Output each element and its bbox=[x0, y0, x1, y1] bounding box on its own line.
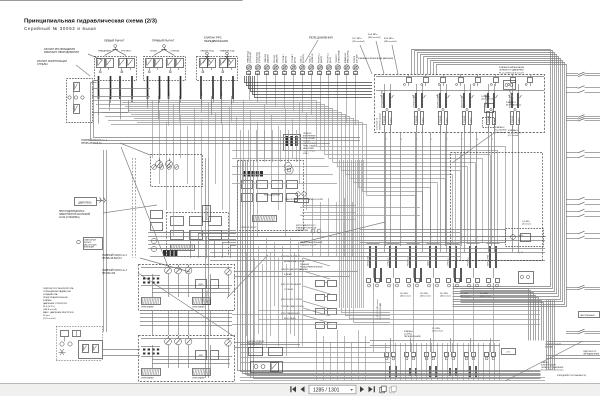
svg-text:ОПУСКАНИЕ: ОПУСКАНИЕ bbox=[212, 87, 215, 98]
svg-text:ВКЛ: ВКЛ bbox=[248, 73, 251, 75]
svg-text:(0,5 кгс/см²): (0,5 кгс/см²) bbox=[495, 131, 506, 134]
svg-text:ДАВЛЕНИЕ ОТКРЫТИЯ:: ДАВЛЕНИЕ ОТКРЫТИЯ: bbox=[43, 302, 67, 305]
svg-text:(580 кгс/см²): (580 кгс/см²) bbox=[384, 40, 397, 43]
svg-text:ПРИ ПОДКЛЮЧЕНИИ К: ПРИ ПОДКЛЮЧЕНИИ К bbox=[59, 211, 85, 213]
svg-text:(400 кгс/см²): (400 кгс/см²) bbox=[420, 295, 431, 298]
svg-text:ПРЕДОХРАНИТЕЛЬНЫЙ: ПРЕДОХРАНИТЕЛЬНЫЙ bbox=[43, 296, 68, 299]
svg-text:(2,01 кгс/см²): (2,01 кгс/см²) bbox=[43, 317, 56, 320]
svg-text:1285 / 1301: 1285 / 1301 bbox=[313, 388, 340, 394]
svg-text:ПЕРЕДНИЙ НАСОС: ПЕРЕДНИЙ НАСОС bbox=[206, 204, 209, 220]
svg-text:PL+0,47 МПа (4,8 кгс/см²): PL+0,47 МПа (4,8 кгс/см²) bbox=[499, 71, 524, 74]
svg-text:P: P bbox=[386, 237, 387, 239]
svg-text:P: P bbox=[401, 139, 402, 141]
svg-text:ЛЕВЫЙ ХОД: ЛЕВЫЙ ХОД bbox=[201, 50, 215, 53]
svg-text:(РАБ.ОБОРУД): (РАБ.ОБОРУД) bbox=[347, 50, 350, 63]
svg-text:(ВВЕРХ): (ВВЕРХ) bbox=[321, 55, 323, 63]
svg-text:ОХЛАЖДЕНИЯ РАДИАТОРА: ОХЛАЖДЕНИЯ РАДИАТОРА bbox=[43, 290, 71, 293]
svg-text:ПРАВЫЙ ХОД: ПРАВЫЙ ХОД bbox=[220, 50, 235, 53]
svg-text:HPV95+95-БАЛ.14: HPV95+95-БАЛ.14 bbox=[102, 257, 122, 260]
svg-text:СЕРВОКЛАПАН: СЕРВОКЛАПАН bbox=[192, 306, 205, 309]
svg-text:КЛАПАН КОМПЕНСАЦИИ: КЛАПАН КОМПЕНСАЦИИ bbox=[499, 66, 525, 69]
svg-text:P: P bbox=[431, 237, 432, 239]
svg-text:ПЕРЕДВ ЛЕВ: ПЕРЕДВ ЛЕВ bbox=[367, 256, 369, 266]
svg-text:ЛЕВЫЙ РЫЧАГ: ЛЕВЫЙ РЫЧАГ bbox=[104, 39, 125, 43]
svg-text:P: P bbox=[462, 237, 463, 239]
svg-text:ПЛАТФОРМЫ: ПЛАТФОРМЫ bbox=[296, 229, 309, 232]
svg-text:ОПУСКАНИЕ: ОПУСКАНИЕ bbox=[159, 87, 162, 98]
svg-text:(150 кгс/см²): (150 кгс/см²) bbox=[352, 40, 365, 43]
svg-text:(ПЕРЕДНЯЯ/СТОРОНА ШАССИ): (ПЕРЕДНЯЯ/СТОРОНА ШАССИ) bbox=[557, 374, 586, 377]
svg-text:GLSS (2 РЕЖИМА): GLSS (2 РЕЖИМА) bbox=[59, 216, 80, 219]
svg-text:СТРЕЛЫ: СТРЕЛЫ bbox=[37, 63, 48, 66]
svg-text:(ВНИЗ): (ВНИЗ) bbox=[330, 57, 332, 63]
svg-text:ГЛАВНЫЙ НАСОС № 3: ГЛАВНЫЙ НАСОС № 3 bbox=[102, 269, 128, 272]
svg-text:РУКОЯТЬ-1: РУКОЯТЬ-1 bbox=[467, 257, 469, 266]
svg-text:Принципиальная гидравлическая: Принципиальная гидравлическая схема (2/3… bbox=[24, 19, 157, 25]
svg-text:КОВШ: КОВШ bbox=[150, 51, 156, 53]
svg-text:ЭЛЕКТРОМАГНИТНЫЙ КЛАПАН В СБОР: ЭЛЕКТРОМАГНИТНЫЙ КЛАПАН В СБОРЕ bbox=[285, 198, 324, 201]
svg-text:(ОБХ.): (ОБХ.) bbox=[303, 153, 309, 155]
svg-text:РАБОЧЕГО ОБОРУДОВАНИЯ: РАБОЧЕГО ОБОРУДОВАНИЯ bbox=[44, 51, 79, 54]
svg-text:ПЕРЕДНЯЯ СЕКЦИЯ: ПЕРЕДНЯЯ СЕКЦИЯ bbox=[380, 302, 382, 320]
svg-text:P: P bbox=[401, 237, 402, 239]
svg-text:Po: 20,5 МПа (205 кгс/см²): Po: 20,5 МПа (205 кгс/см²) bbox=[376, 299, 379, 320]
svg-text:(ПЕРЕДНИЙ): (ПЕРЕДНИЙ) bbox=[249, 51, 252, 63]
svg-text:СПУСК: СПУСК bbox=[446, 118, 448, 123]
svg-text:P: P bbox=[477, 139, 478, 141]
svg-text:ПОДЪЕМ: ПОДЪЕМ bbox=[464, 115, 466, 123]
svg-text:Серийный № 30052 и выше: Серийный № 30052 и выше bbox=[24, 26, 97, 31]
svg-text:P: P bbox=[431, 139, 432, 141]
svg-text:СПУСК: СПУСК bbox=[470, 118, 472, 123]
svg-text:ВКЛ: ВКЛ bbox=[327, 73, 330, 75]
svg-text:ПРИ 30 МПа (днище): ПРИ 30 МПа (днище) bbox=[380, 113, 382, 130]
svg-text:КЛАПАН: КЛАПАН bbox=[284, 273, 292, 276]
svg-text:98 (кгс): 98 (кгс) bbox=[43, 315, 50, 317]
svg-text:ПЕРЕДВИЖЕНИЕ ЛЕВ: ПЕРЕДВИЖЕНИЕ ЛЕВ bbox=[381, 91, 383, 108]
svg-text:(0,2 кгс/см²): (0,2 кгс/см²) bbox=[508, 134, 519, 137]
svg-text:(400 кгс/см²): (400 кгс/см²) bbox=[440, 295, 451, 298]
svg-text:ВИБРАЦИЙ: ВИБРАЦИЙ bbox=[84, 246, 95, 249]
svg-text:+ТТ.2: +ТТ.2 bbox=[506, 352, 511, 354]
svg-text:ОБРАТНОГО ДАВЛЕНИЯ: ОБРАТНОГО ДАВЛЕНИЯ bbox=[499, 69, 524, 72]
svg-text:(248 В кгс/см²): (248 В кгс/см²) bbox=[43, 308, 57, 311]
svg-text:(400 кгс/см²): (400 кгс/см²) bbox=[400, 295, 411, 298]
svg-text:ОПУСКАНИЕ: ОПУСКАНИЕ bbox=[180, 87, 183, 98]
svg-text:ВКЛ: ВКЛ bbox=[256, 73, 259, 75]
svg-text:ЦЕНТРАЛЬНЫЙ: ЦЕНТРАЛЬНЫЙ bbox=[580, 314, 595, 317]
svg-text:КЛАПАН S: КЛАПАН S bbox=[506, 101, 517, 104]
svg-text:(ПЛАТФОРМА): (ПЛАТФОРМА) bbox=[338, 50, 341, 63]
svg-text:СЕРВ: СЕРВ bbox=[198, 355, 202, 357]
svg-text:55,8 МПа: 55,8 МПа bbox=[368, 34, 378, 36]
svg-text:ГОЛОВА СЗАДИ СТРЕЛА: ГОЛОВА СЗАДИ СТРЕЛА bbox=[281, 305, 304, 308]
svg-text:ПОДЪЕМ: ПОДЪЕМ bbox=[512, 115, 514, 123]
svg-text:МАКС. ДАВЛЕНИЕ РАЗГРУЗКИ: МАКС. ДАВЛЕНИЕ РАЗГРУЗКИ bbox=[43, 311, 74, 314]
svg-text:КЛАПАН: КЛАПАН bbox=[43, 299, 52, 302]
svg-text:СПУСК: СПУСК bbox=[422, 118, 424, 123]
svg-text:P: P bbox=[492, 237, 493, 239]
svg-text:СЕРВОКЛАПАН: СЕРВОКЛАПАН bbox=[141, 306, 154, 309]
svg-text:ДВИГАТЕЛЬ: ДВИГАТЕЛЬ bbox=[78, 201, 92, 204]
svg-text:14,7 МПа: 14,7 МПа bbox=[352, 38, 362, 40]
svg-text:КОВШ: КОВШ bbox=[427, 261, 429, 266]
svg-text:ПОДЪЕМ: ПОДЪЕМ bbox=[384, 115, 386, 123]
svg-text:(565 кгс/см²): (565 кгс/см²) bbox=[368, 36, 381, 39]
svg-text:(10,8 кгс/см²): (10,8 кгс/см²) bbox=[481, 98, 493, 101]
svg-text:ВКЛ: ВКЛ bbox=[319, 73, 322, 75]
svg-text:ПЕРЕДВИЖЕНИЯ: ПЕРЕДВИЖЕНИЯ bbox=[204, 39, 228, 43]
svg-text:HPV160-160: HPV160-160 bbox=[102, 273, 116, 275]
svg-text:№ 3,5% (25 кгс): № 3,5% (25 кгс) bbox=[376, 117, 379, 130]
svg-text:СЕРВОКЛАПАН: СЕРВОКЛАПАН bbox=[192, 377, 205, 380]
svg-text:КЛАПАН S: КЛАПАН S bbox=[508, 129, 519, 132]
svg-text:ГЛАВНЫЙ НАСОС № 2: ГЛАВНЫЙ НАСОС № 2 bbox=[102, 254, 128, 257]
svg-text:P: P bbox=[477, 237, 478, 239]
svg-text:ГИДРОМОТОР ВЕНТИЛЯТОРА: ГИДРОМОТОР ВЕНТИЛЯТОРА bbox=[43, 287, 74, 290]
svg-text:РУКОЯТЬ ВСПОМ: РУКОЯТЬ ВСПОМ bbox=[437, 94, 439, 108]
svg-text:ЭЛЕКТРОННОЙ СИСТЕМОЙ: ЭЛЕКТРОННОЙ СИСТЕМОЙ bbox=[59, 213, 91, 216]
svg-text:СТРЕЛА: СТРЕЛА bbox=[170, 50, 179, 53]
svg-text:ПОДЪЕМ: ПОДЪЕМ bbox=[169, 90, 171, 98]
svg-text:КЛАПАН ПЕРЕКЛ.: КЛАПАН ПЕРЕКЛ. bbox=[247, 342, 263, 345]
svg-text:СТРЕЛА-1: СТРЕЛА-1 bbox=[446, 258, 449, 266]
svg-text:ПОДЪЕМ: ПОДЪЕМ bbox=[440, 115, 442, 123]
svg-text:ВРАЩЕНИЯ: ВРАЩЕНИЯ bbox=[98, 50, 111, 53]
svg-text:ПЕРЕДВИЖЕНИЯ): ПЕРЕДВИЖЕНИЯ) bbox=[404, 336, 421, 338]
svg-text:24,3 (IF КГс): 24,3 (IF КГс) bbox=[43, 306, 55, 308]
svg-text:РЕЛЕ ДАВЛЕНИЯ: РЕЛЕ ДАВЛЕНИЯ bbox=[309, 36, 333, 40]
svg-text:И РАДИАТОРА:: И РАДИАТОРА: bbox=[43, 293, 58, 296]
svg-text:(М. РОДБОК. -1): (М. РОДБОК. -1) bbox=[506, 105, 522, 107]
svg-text:(400 кгс/см²): (400 кгс/см²) bbox=[480, 295, 491, 298]
svg-text:P: P bbox=[386, 139, 387, 141]
svg-text:ОТСЕЧКИ: ОТСЕЧКИ bbox=[284, 289, 294, 291]
svg-text:ДЛЯ БЛОКИР. СТРЕЛЫ: ДЛЯ БЛОКИР. СТРЕЛЫ bbox=[281, 299, 302, 301]
svg-text:P: P bbox=[492, 139, 493, 141]
svg-text:ПРАВЫЙ РЫЧАГ: ПРАВЫЙ РЫЧАГ bbox=[152, 39, 175, 43]
svg-text:СПУСК: СПУСК bbox=[390, 118, 392, 123]
svg-text:СПУСК: СПУСК bbox=[518, 118, 520, 123]
svg-text:ОПУСКАНИЕ: ОПУСКАНИЕ bbox=[232, 87, 235, 98]
svg-text:КЛАПАН В СБОРЕ: КЛАПАН В СБОРЕ bbox=[300, 244, 317, 247]
svg-text:РЕЛЕ ДАВЛЕНИЯ: РЕЛЕ ДАВЛЕНИЯ bbox=[264, 194, 281, 197]
svg-text:(20 кгс/см²): (20 кгс/см²) bbox=[522, 222, 532, 225]
svg-text:РУКОЯТЬ: РУКОЯТЬ bbox=[121, 51, 132, 53]
svg-text:ПОДЪЕМ: ПОДЪЕМ bbox=[488, 115, 490, 123]
svg-text:83,3 МПа: 83,3 МПа bbox=[384, 38, 394, 40]
svg-text:(400 кгс/см²): (400 кгс/см²) bbox=[460, 295, 471, 298]
svg-text:P: P bbox=[462, 139, 463, 141]
svg-text:КЛАПАНА КОМПЕНСАЦИИ ДАВЛЕНИЯ: КЛАПАНА КОМПЕНСАЦИИ ДАВЛЕНИЯ bbox=[358, 57, 394, 60]
svg-text:РУКОЯТЬ-2: РУКОЯТЬ-2 bbox=[407, 257, 409, 266]
svg-text:(ЗАДНИЙ): (ЗАДНИЙ) bbox=[276, 54, 279, 63]
svg-text:СТРЕЛА-2: СТРЕЛА-2 bbox=[386, 258, 389, 266]
svg-text:СЕРВОКЛАПАН: СЕРВОКЛАПАН bbox=[141, 377, 154, 380]
svg-text:(ЗАДНИЙ): (ЗАДНИЙ) bbox=[267, 54, 270, 63]
svg-text:(В СБОРЕ): (В СБОРЕ) bbox=[303, 53, 305, 63]
svg-text:(ВВЕРХ): (ВВЕРХ) bbox=[285, 55, 287, 63]
svg-text:(ОБРАТНО): (ОБРАТНО) bbox=[311, 53, 314, 63]
svg-text:(ПЕРЕДНИЙ): (ПЕРЕДНИЙ) bbox=[258, 51, 261, 63]
svg-text:ПОДЪЕМ: ПОДЪЕМ bbox=[416, 115, 418, 123]
svg-text:КЛАПАН: КЛАПАН bbox=[300, 268, 308, 271]
svg-text:(ВНИЗ): (ВНИЗ) bbox=[294, 57, 296, 63]
svg-text:СЕРВ: СЕРВ bbox=[198, 284, 202, 286]
